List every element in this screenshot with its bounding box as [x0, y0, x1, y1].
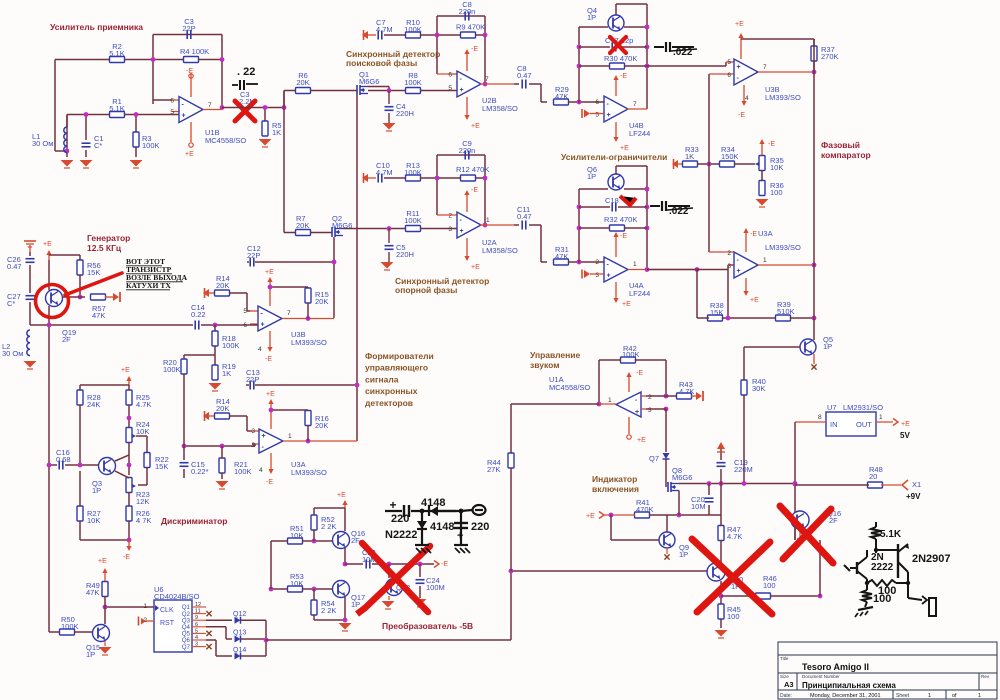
resistor R6 — [296, 88, 311, 94]
resistor R47 — [718, 526, 724, 541]
svg-text:Tesoro Amigo II: Tesoro Amigo II — [802, 662, 869, 672]
node — [127, 416, 132, 421]
svg-text:1P: 1P — [823, 342, 832, 351]
handwritten transistor 2N2907 — [897, 544, 899, 578]
svg-text:2: 2 — [648, 394, 652, 401]
port R17 — [203, 412, 209, 420]
handwritten ground 2 — [865, 602, 867, 607]
resistor R4 — [184, 57, 199, 63]
svg-text:Q13: Q13 — [233, 630, 246, 637]
diode Q12 — [235, 617, 241, 624]
red scribble over C18 — [620, 196, 636, 205]
wire pin3 — [646, 408, 666, 410]
wire — [510, 468, 512, 571]
svg-text:15K: 15K — [155, 462, 168, 471]
svg-text:1: 1 — [633, 261, 637, 268]
svg-text:LM393/SO: LM393/SO — [765, 243, 801, 252]
svg-text:Title: Title — [780, 656, 789, 661]
svg-text:1: 1 — [763, 257, 767, 264]
svg-text:Индикатор: Индикатор — [592, 474, 637, 484]
wire R44 — [510, 404, 512, 453]
svg-text:47K: 47K — [555, 252, 568, 261]
svg-text:.022: .022 — [673, 47, 693, 58]
wire Q2 gate — [333, 237, 335, 318]
wire — [146, 467, 148, 485]
wire — [734, 163, 755, 165]
node — [577, 100, 582, 105]
op-amp U3B former — [250, 310, 258, 312]
wire — [29, 252, 31, 256]
handwritten speaker — [907, 583, 909, 598]
svg-text:-E: -E — [636, 370, 643, 377]
diode Q7 — [663, 453, 670, 459]
svg-text:100M: 100M — [426, 583, 445, 592]
svg-text:100: 100 — [727, 612, 740, 621]
svg-text:2 2K: 2 2K — [321, 606, 336, 615]
op-amp U1B — [172, 99, 179, 101]
handwritten .022 cap 2 — [650, 205, 660, 207]
svg-text:сигнала: сигнала — [365, 374, 399, 384]
svg-text:5.1K: 5.1K — [109, 49, 124, 58]
node — [78, 295, 83, 300]
svg-text:3: 3 — [448, 226, 452, 233]
svg-text:10K: 10K — [290, 531, 303, 540]
svg-text:1P: 1P — [92, 486, 101, 495]
svg-text:компаратор: компаратор — [821, 150, 871, 160]
svg-text:+: + — [737, 268, 741, 275]
svg-text:+: + — [737, 64, 741, 71]
svg-text:+: + — [389, 498, 396, 512]
svg-text:220n: 220n — [459, 146, 476, 155]
node — [812, 263, 817, 268]
wire — [80, 384, 129, 386]
svg-text:2: 2 — [727, 250, 731, 257]
wire — [128, 521, 130, 540]
svg-text:RST: RST — [160, 620, 175, 627]
transistor Q10 — [707, 563, 725, 581]
transistor Q8 mosfet — [667, 482, 669, 492]
wire — [343, 228, 389, 230]
svg-text:+: + — [262, 433, 266, 440]
wire C15 R21 row — [184, 445, 255, 447]
op-amp U2A — [457, 212, 481, 238]
power +E U2A — [466, 238, 468, 258]
transistor Q16 — [333, 532, 350, 549]
resistor R32 — [610, 225, 625, 231]
wire — [420, 34, 437, 36]
node — [577, 45, 582, 50]
svg-text:+E: +E — [735, 21, 744, 28]
wire U1A out — [511, 403, 599, 405]
svg-text:100K: 100K — [61, 622, 79, 631]
svg-text:CLK: CLK — [160, 607, 174, 614]
svg-text:M6G6: M6G6 — [672, 473, 692, 482]
svg-text:CD4024B/SO: CD4024B/SO — [154, 592, 200, 601]
power -E U3A-f — [270, 453, 272, 471]
wire — [153, 59, 222, 61]
ground — [209, 383, 222, 390]
node — [387, 226, 392, 231]
wire — [222, 107, 265, 109]
svg-text:2N2907: 2N2907 — [912, 553, 951, 565]
svg-text:20K: 20K — [296, 221, 309, 230]
svg-text:управляющего: управляющего — [365, 363, 428, 373]
op-amp U1A — [616, 392, 641, 417]
node — [103, 605, 108, 610]
wire — [152, 35, 154, 105]
wire — [344, 597, 346, 620]
wire bottom row gen — [30, 324, 193, 326]
svg-text:4 7K: 4 7K — [136, 516, 151, 525]
svg-text:100: 100 — [763, 581, 776, 590]
handwritten resistor 5.1K — [875, 522, 877, 527]
resistor R7 — [296, 230, 311, 236]
svg-text:Усилители-ограничители: Усилители-ограничители — [561, 152, 667, 162]
ground — [382, 601, 395, 608]
svg-text:+E: +E — [637, 437, 646, 444]
svg-text:5: 5 — [170, 109, 174, 116]
node — [387, 562, 392, 567]
svg-text:U7: U7 — [827, 403, 837, 412]
transistor Q9 — [659, 532, 675, 548]
svg-text:100: 100 — [770, 188, 783, 197]
svg-text:1P: 1P — [679, 550, 688, 559]
capacitor C4 — [388, 91, 390, 105]
resistor R28 — [77, 390, 83, 405]
svg-text:.022: .022 — [669, 206, 689, 217]
handwritten .022 cap — [654, 46, 664, 48]
wire — [206, 619, 232, 621]
wire — [819, 540, 821, 596]
input port C10 — [362, 174, 368, 182]
capacitor C5 — [388, 229, 390, 244]
resistor R54 — [311, 600, 317, 615]
node — [812, 316, 817, 321]
node — [726, 316, 731, 321]
resistor R26 — [126, 506, 132, 521]
capacitor C11 — [514, 224, 519, 226]
transistor Q2 mosfet — [331, 227, 333, 237]
svg-text:1K: 1K — [685, 152, 694, 161]
resistor R46 — [756, 593, 771, 599]
capacitor C18 — [579, 206, 610, 208]
wire — [720, 484, 722, 527]
wire — [697, 163, 720, 165]
node — [435, 176, 440, 181]
resistor R34 — [720, 161, 735, 167]
svg-text:7: 7 — [208, 102, 212, 109]
handwritten diode 4148 h — [430, 506, 438, 516]
svg-text:100K: 100K — [163, 365, 181, 374]
wire — [80, 539, 129, 541]
power +E U4A — [615, 282, 617, 300]
svg-text:-E: -E — [620, 73, 627, 80]
handwritten wire — [875, 547, 877, 553]
handwritten 220 cap + 4148 diodes circuit — [385, 510, 402, 512]
wire — [206, 626, 226, 628]
wire left bus conv — [270, 541, 272, 589]
op-amp U3A comparator — [709, 251, 734, 253]
svg-text:1: 1 — [288, 433, 292, 440]
handwritten wires — [866, 550, 868, 557]
wire — [510, 571, 512, 640]
transistor Q3 — [99, 458, 116, 475]
svg-text:C18: C18 — [605, 196, 619, 205]
wire — [313, 589, 315, 600]
resistor R43 — [677, 393, 692, 399]
port +E 5V — [893, 419, 898, 426]
capacitor C15 — [183, 446, 185, 460]
svg-text:M6G6: M6G6 — [359, 77, 379, 86]
power -E U2B — [466, 52, 468, 71]
port R43 — [691, 395, 696, 397]
svg-text:Rev: Rev — [981, 674, 990, 679]
port R33 — [672, 160, 678, 168]
resistor R21 — [219, 458, 225, 473]
svg-text:LM393/SO: LM393/SO — [291, 468, 327, 477]
node — [182, 444, 187, 449]
svg-text:LM358/SO: LM358/SO — [482, 104, 518, 113]
svg-text:КАТУХИ ТХ: КАТУХИ ТХ — [126, 281, 171, 290]
svg-text:0.22: 0.22 — [191, 310, 206, 319]
regulator U7 — [826, 412, 876, 436]
resistor R31 — [554, 259, 569, 265]
svg-text:N2222: N2222 — [385, 529, 417, 541]
node — [577, 260, 582, 265]
wire — [54, 60, 56, 152]
power +E U3A-c — [745, 278, 747, 293]
node — [263, 105, 268, 110]
wire — [611, 539, 659, 541]
svg-text:LM393/SO: LM393/SO — [291, 338, 327, 347]
big red X over Q16b — [780, 506, 833, 563]
svg-text:220n: 220n — [459, 7, 476, 16]
svg-text:20K: 20K — [315, 297, 328, 306]
wire — [284, 90, 357, 92]
wire — [344, 508, 346, 531]
power -E U1A — [628, 375, 630, 392]
power +E U3B-f — [269, 280, 271, 306]
node — [47, 323, 52, 328]
wire pin3 tap — [727, 270, 729, 319]
resistor R12 — [461, 175, 476, 181]
wire — [221, 35, 223, 108]
svg-text:10M: 10M — [691, 502, 706, 511]
resistor R44 — [508, 453, 514, 468]
power -E U4B — [615, 78, 617, 96]
svg-text:15K: 15K — [87, 268, 100, 277]
resistor R14 — [215, 290, 230, 296]
wire — [598, 360, 600, 404]
svg-text:+E: +E — [620, 145, 629, 152]
power +E U2B — [466, 97, 468, 117]
svg-text:-E: -E — [471, 46, 478, 53]
wire — [761, 170, 763, 182]
resistor R9 — [461, 32, 476, 38]
wire — [79, 405, 81, 465]
svg-text:U3A: U3A — [758, 229, 773, 238]
capacitor C13 — [246, 384, 249, 386]
svg-text:6: 6 — [448, 72, 452, 79]
svg-text:+E: +E — [265, 269, 274, 276]
wire bottom bus — [266, 639, 511, 641]
resistor R5 — [262, 121, 268, 136]
inductor L1 — [64, 127, 67, 153]
svg-text:4148: 4148 — [430, 521, 454, 533]
capacitor C8b — [514, 83, 519, 85]
svg-text:+E: +E — [901, 421, 910, 428]
power +E U3A-f — [270, 402, 272, 429]
power -E U3B-f — [269, 331, 271, 349]
svg-text:+E: +E — [750, 297, 759, 304]
svg-text:1P: 1P — [587, 172, 596, 181]
counter output wires — [206, 611, 211, 616]
svg-text:R9 470K: R9 470K — [456, 23, 485, 32]
svg-text:Генератор: Генератор — [87, 233, 130, 243]
resistor R38 — [708, 315, 723, 321]
capacitor C23 — [365, 560, 367, 569]
svg-text:3: 3 — [648, 407, 652, 414]
port -E conv — [434, 561, 439, 568]
transistor Q18 — [386, 579, 403, 596]
power -E U2A — [466, 193, 468, 212]
wire — [241, 619, 266, 621]
resistor R33 — [683, 161, 698, 167]
svg-text:100K: 100K — [622, 350, 640, 359]
svg-text:+E: +E — [337, 492, 346, 499]
node — [306, 439, 311, 444]
wire — [104, 641, 106, 646]
svg-text:-E: -E — [265, 356, 272, 363]
wire pin2 — [646, 395, 677, 397]
svg-text:1P: 1P — [351, 600, 360, 609]
transistor Q19 — [46, 290, 63, 307]
resistor R42 — [621, 357, 636, 363]
svg-text:Sheet: Sheet — [896, 693, 910, 699]
wire — [264, 108, 266, 122]
transistor Q15 — [93, 625, 110, 642]
svg-text:+E: +E — [266, 391, 275, 398]
resistor R20 — [181, 359, 187, 374]
svg-text:R30 470K: R30 470K — [604, 54, 637, 63]
handwritten minus output — [461, 510, 472, 511]
svg-text:30K: 30K — [752, 384, 765, 393]
capacitor C3 — [186, 30, 188, 39]
svg-text:10K: 10K — [290, 579, 303, 588]
input port C7 — [362, 31, 368, 39]
potentiometer R35 — [759, 156, 765, 171]
svg-text:100K: 100K — [222, 341, 240, 350]
wire — [720, 619, 722, 628]
capacitor C20 — [708, 484, 710, 496]
svg-text:LM393/SO: LM393/SO — [765, 93, 801, 102]
wire — [743, 395, 745, 484]
wire — [345, 563, 363, 565]
wire — [790, 317, 814, 319]
wire — [384, 34, 406, 36]
svg-text:Q7: Q7 — [182, 644, 191, 651]
svg-text:Усилитель приемника: Усилитель приемника — [50, 22, 143, 32]
wire — [48, 260, 50, 290]
svg-text:-E: -E — [186, 68, 193, 75]
node — [483, 176, 488, 181]
resistor R40 — [741, 380, 747, 395]
handwritten diode 4148 v — [421, 511, 423, 545]
svg-text:220H: 220H — [396, 109, 414, 118]
svg-text:270K: 270K — [821, 52, 839, 61]
svg-text:6: 6 — [727, 72, 731, 79]
svg-text:поисковой фазы: поисковой фазы — [346, 58, 417, 68]
node — [719, 594, 724, 599]
red cross over C3 — [235, 101, 255, 121]
ground — [259, 139, 272, 146]
ground — [756, 199, 769, 206]
port RST — [146, 620, 154, 622]
resistor R45 — [718, 604, 724, 619]
svg-text:+E: +E — [622, 301, 631, 308]
svg-text:X1: X1 — [912, 480, 921, 489]
resistor R36 — [759, 181, 765, 196]
resistor R22 — [144, 453, 150, 468]
wire Q5 left — [744, 346, 800, 348]
svg-text:0.47: 0.47 — [517, 71, 532, 80]
capacitor C27 — [26, 295, 35, 297]
wire — [697, 317, 709, 319]
ground — [414, 599, 427, 606]
power -E R35 — [761, 142, 763, 157]
wire — [229, 415, 247, 417]
svg-text:R12 470K: R12 470K — [456, 165, 489, 174]
node — [343, 562, 348, 567]
wire — [128, 492, 130, 506]
svg-text:7: 7 — [763, 64, 767, 71]
svg-text:LM358/SO: LM358/SO — [482, 246, 518, 255]
wire — [795, 421, 826, 423]
wire — [795, 484, 869, 486]
ground — [130, 160, 143, 167]
port pin3 U4A — [584, 270, 590, 278]
resistor R8 — [406, 88, 421, 94]
wire R37 top — [741, 38, 814, 40]
IC U6 CD4024B — [154, 600, 192, 652]
node — [818, 594, 823, 599]
wire feedback box U4A — [578, 189, 580, 262]
svg-text:4.7K: 4.7K — [727, 532, 742, 541]
node — [645, 267, 650, 272]
svg-text:10K: 10K — [136, 427, 149, 436]
svg-text:100K: 100K — [234, 467, 252, 476]
svg-text:100K: 100K — [404, 25, 422, 34]
wire — [85, 150, 87, 157]
wire — [62, 296, 85, 298]
wire — [450, 73, 457, 75]
svg-text:20K: 20K — [216, 281, 229, 290]
node — [812, 70, 817, 75]
wire — [420, 177, 437, 179]
svg-text:синхронных: синхронных — [365, 386, 418, 396]
svg-text:C*: C* — [7, 299, 15, 308]
capacitor C17 — [579, 46, 610, 48]
ground — [339, 623, 352, 630]
wire — [649, 514, 721, 516]
wire — [128, 442, 130, 475]
transistor Q17 — [333, 581, 350, 598]
svg-text:включения: включения — [592, 484, 639, 494]
power -E U1B — [190, 73, 192, 97]
resistor R25 — [126, 390, 132, 405]
wire feedback box U4B — [578, 27, 580, 102]
wire — [720, 581, 722, 604]
